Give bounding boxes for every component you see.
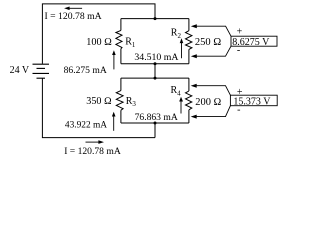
node junction bottom of first pair (154, 62, 157, 65)
resistor R3 (116, 91, 123, 111)
svg-text:76.863 mA: 76.863 mA (135, 112, 178, 123)
arrow current I bottom (right-pointing) (86, 140, 105, 144)
arrow current 86.275 mA (up) (112, 50, 116, 69)
resistor R1 (116, 30, 122, 48)
arrow current I top (left-pointing) (64, 7, 82, 11)
node junction bottom of second pair (154, 122, 157, 125)
wire R4 branch bottom lead (188, 110, 190, 123)
svg-text:I = 120.78 mA: I = 120.78 mA (45, 11, 102, 22)
svg-text:-: - (237, 45, 240, 56)
wire top-left loop from battery positive up and across to center feed (42, 4, 155, 64)
voltmeter leader arrow to R4 bottom terminal (191, 106, 231, 119)
svg-text:I = 120.78 mA: I = 120.78 mA (64, 146, 121, 157)
voltmeter leader arrow to R4 top terminal (191, 84, 231, 96)
wire battery negative down and across bottom (42, 78, 155, 137)
wire from bottom junction down to bottom return wire (154, 123, 156, 138)
voltmeter box 15.373 V (230, 95, 277, 107)
svg-text:350 Ω: 350 Ω (86, 96, 112, 107)
resistor R2 (186, 31, 192, 50)
voltmeter box 8.6275 V (231, 36, 277, 48)
svg-text:34.510 mA: 34.510 mA (134, 52, 178, 63)
wire middle connector between pairs (154, 64, 156, 78)
wire R3 branch top lead (120, 78, 122, 91)
arrow current 76.863 mA (up) (179, 97, 183, 114)
svg-text:24 V: 24 V (10, 65, 30, 76)
wire R1 branch top lead (120, 19, 122, 31)
svg-text:-: - (237, 105, 240, 116)
arrow current 34.510 mA (up) (180, 38, 184, 58)
svg-text:250 Ω: 250 Ω (195, 37, 221, 48)
wire R3 branch bottom lead (120, 110, 122, 123)
wire bottom rail of second parallel pair (121, 122, 189, 124)
wire R4 branch top lead (188, 78, 190, 91)
arrow current 43.922 mA (up) (112, 112, 116, 131)
battery V1 24 V (33, 64, 50, 78)
resistor R4 (186, 91, 192, 110)
svg-text:86.275 mA: 86.275 mA (64, 65, 107, 76)
wire R1 branch bottom lead (120, 49, 122, 64)
node junction top of second pair (154, 77, 157, 80)
wire R2 branch bottom lead (188, 49, 190, 63)
wire top rail of first parallel pair (121, 18, 189, 20)
svg-text:43.922 mA: 43.922 mA (65, 121, 107, 131)
svg-text:200 Ω: 200 Ω (195, 97, 221, 108)
svg-text:100 Ω: 100 Ω (86, 37, 112, 48)
svg-text:+: + (237, 26, 243, 37)
voltmeter leader arrow to R2 top terminal (191, 24, 231, 36)
voltmeter leader arrow to R2 bottom terminal (191, 46, 231, 58)
wire R2 branch top lead (188, 19, 190, 31)
node junction top of first pair (154, 17, 157, 20)
wire bottom rail of first parallel pair (121, 63, 189, 65)
wire top rail of second parallel pair (121, 77, 189, 79)
